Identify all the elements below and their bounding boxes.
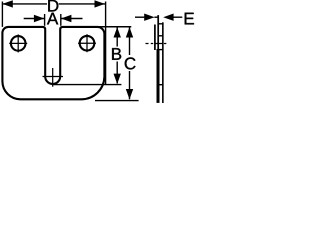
arrowhead A right <box>61 15 71 22</box>
arrowhead E left <box>144 14 154 21</box>
label B <box>112 48 121 60</box>
extension line D left <box>1 2 3 27</box>
plate outline with U-slot <box>2 27 104 99</box>
dimension E line right segment <box>173 16 183 18</box>
arrowhead C up <box>126 27 133 37</box>
side view right edge <box>162 22 164 103</box>
extension line top right for B C <box>98 26 131 28</box>
slot crosshair vertical <box>52 68 54 87</box>
hole right crosshair horizontal <box>78 42 96 44</box>
dimension A line left segment <box>24 18 45 20</box>
dimension D line left segment <box>2 3 47 5</box>
dimension B line lower segment <box>116 62 118 84</box>
side view step upper <box>158 23 163 25</box>
side view center line dash left <box>151 43 153 45</box>
dimension C line lower segment <box>129 71 131 99</box>
dimension E line tip connector <box>154 16 158 18</box>
arrowhead E right <box>163 14 173 21</box>
arrowhead A left <box>34 15 44 22</box>
dimension A line right segment <box>61 18 83 20</box>
side view hole hidden line top <box>158 35 163 37</box>
extension line A left <box>44 14 46 26</box>
side view lower thick column <box>157 49 160 103</box>
label C <box>125 57 136 69</box>
dimension B line upper segment <box>116 27 118 46</box>
hole right <box>80 36 95 51</box>
extension line plate bottom to C <box>95 100 139 102</box>
label A <box>47 13 58 25</box>
side view hole center line inside <box>155 43 163 45</box>
side view center line dash right <box>164 43 166 45</box>
extension line slot bottom to B <box>53 84 121 86</box>
dimension D line right segment <box>59 3 106 5</box>
side view left edge <box>154 25 156 51</box>
side view top tab line <box>157 15 159 50</box>
side view center line dash far left <box>146 43 149 45</box>
arrowhead B up <box>114 27 121 37</box>
arrowhead D right <box>95 0 105 7</box>
slot crosshair horizontal <box>43 76 64 78</box>
label E <box>185 13 194 25</box>
extension line D right <box>105 2 107 85</box>
side view step slot bottom <box>158 84 163 86</box>
arrowhead D left <box>2 0 12 7</box>
hole left crosshair horizontal <box>9 42 27 44</box>
extension line A right <box>60 14 62 26</box>
dimension E line left segment <box>135 16 146 18</box>
hole right crosshair vertical <box>86 34 88 52</box>
hole left <box>11 36 26 51</box>
label D <box>48 0 58 12</box>
dimension C line upper segment <box>129 27 131 55</box>
arrowhead B down <box>114 74 121 84</box>
arrowhead C down <box>126 89 133 99</box>
side view hole hidden line bottom <box>158 49 163 51</box>
hole left crosshair vertical <box>17 34 19 52</box>
